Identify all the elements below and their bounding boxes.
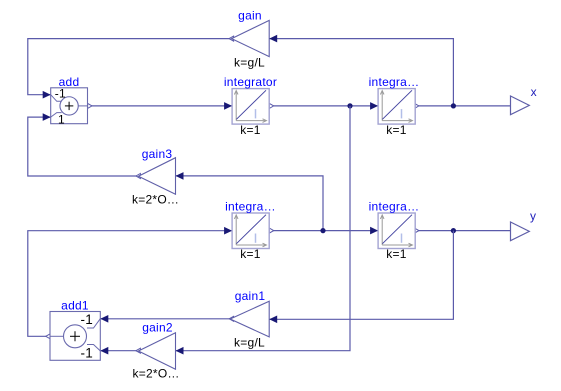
svg-text:y: y (530, 209, 536, 223)
svg-text:k=g/L: k=g/L (234, 335, 265, 349)
svg-text:1: 1 (58, 112, 65, 126)
svg-text:k=1: k=1 (240, 123, 261, 137)
junction node after integrator (x row) (347, 103, 352, 108)
wire add1.y to integrator2.u (28, 227, 232, 339)
svg-text:add: add (59, 75, 80, 89)
wire node x to gain.u feedback (269, 35, 453, 106)
junction node y (451, 228, 456, 233)
integrator block integrator3 (row2 col2) (369, 199, 420, 261)
svg-text:gain3: gain3 (142, 147, 173, 161)
wire gain3.y to add.u2 (28, 113, 141, 178)
svg-text:integra…: integra… (225, 199, 276, 213)
integrator block integrator2 (row2 col1) (225, 199, 276, 261)
svg-text:integra…: integra… (369, 75, 420, 89)
svg-text:x: x (531, 85, 537, 99)
svg-text:k=2*O…: k=2*O… (132, 192, 179, 206)
wire integrator1.y to port x (414, 103, 510, 108)
svg-text:gain2: gain2 (142, 321, 173, 335)
svg-text:k=2*O…: k=2*O… (133, 367, 180, 381)
svg-text:k=1: k=1 (386, 247, 407, 261)
svg-text:-1: -1 (81, 345, 94, 360)
integrator block integrator (row1 col1) (224, 75, 277, 137)
adder block add (51, 75, 88, 126)
wire add.y to integrator.u (88, 102, 233, 110)
integrator block integrator1 (row1 col2) (369, 75, 420, 137)
gain block gain (232, 9, 270, 70)
svg-text:gain: gain (238, 9, 262, 23)
gain block gain3 (132, 147, 179, 206)
svg-text:integrator: integrator (224, 75, 277, 89)
svg-text:gain1: gain1 (235, 289, 266, 303)
svg-text:-1: -1 (81, 312, 94, 327)
svg-text:k=1: k=1 (240, 247, 261, 261)
gain block gain1 (230, 289, 269, 349)
wire node y to gain1.u (269, 231, 453, 324)
wire integrator2.y to integrator3.u (269, 227, 378, 235)
adder block add1 (mirrored) (50, 299, 100, 361)
output port y (511, 209, 537, 241)
junction node after integrator2 (y row) (320, 228, 325, 233)
svg-text:k=g/L: k=g/L (234, 56, 265, 70)
wire gain2.y to add1.u2 (100, 347, 140, 355)
junction node x (451, 103, 456, 108)
wire gain.y to add.u1 (28, 36, 234, 98)
svg-text:integra…: integra… (369, 199, 420, 213)
wire node der(y) to gain3.u (176, 172, 324, 231)
wire gain1.y to add1.u1 (100, 315, 233, 323)
svg-text:add1: add1 (61, 299, 89, 313)
wire integrator.y to integrator1.u (269, 102, 378, 110)
wire integrator3.y to port y (414, 228, 510, 233)
svg-text:k=1: k=1 (386, 123, 407, 137)
wire node der(x) to gain2.u (176, 106, 351, 355)
output port x (511, 85, 537, 115)
gain block gain2 (133, 321, 180, 381)
